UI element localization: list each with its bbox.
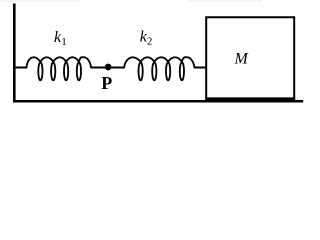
spring k2 xyxy=(124,57,194,80)
scan artifact top-left xyxy=(0,0,80,2)
wire wall to k1 xyxy=(15,67,27,69)
svg-text:P: P xyxy=(101,73,112,93)
ground xyxy=(13,100,303,103)
svg-text:1: 1 xyxy=(61,36,67,48)
wire k2 to mass xyxy=(194,67,206,69)
svg-text:2: 2 xyxy=(147,36,153,48)
wire k1 to k2 xyxy=(91,67,125,69)
scan artifact top-right xyxy=(188,0,262,2)
wall xyxy=(13,4,16,103)
svg-text:M: M xyxy=(234,51,250,68)
node P dot xyxy=(105,64,112,71)
spring k1 xyxy=(27,57,92,80)
mass M box xyxy=(206,17,294,99)
